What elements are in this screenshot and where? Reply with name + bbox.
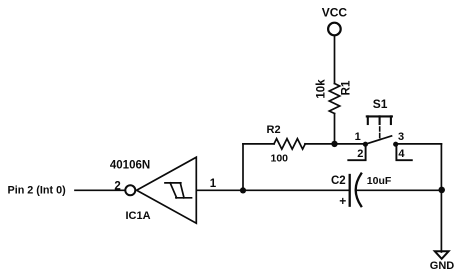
svg-text:2: 2 bbox=[114, 180, 120, 192]
svg-text:3: 3 bbox=[398, 131, 404, 143]
svg-text:R2: R2 bbox=[267, 124, 281, 136]
svg-text:40106N: 40106N bbox=[110, 160, 150, 172]
svg-text:10k: 10k bbox=[316, 79, 328, 99]
svg-text:4: 4 bbox=[398, 148, 405, 160]
svg-text:1: 1 bbox=[210, 178, 217, 190]
svg-text:GND: GND bbox=[430, 260, 455, 272]
svg-text:2: 2 bbox=[357, 148, 363, 160]
svg-text:+: + bbox=[339, 194, 346, 208]
svg-text:S1: S1 bbox=[373, 97, 388, 111]
svg-text:100: 100 bbox=[271, 153, 289, 165]
svg-text:Pin 2 (Int 0): Pin 2 (Int 0) bbox=[8, 184, 67, 196]
svg-text:VCC: VCC bbox=[322, 6, 348, 20]
svg-text:R1: R1 bbox=[341, 80, 353, 95]
svg-text:IC1A: IC1A bbox=[126, 210, 151, 222]
svg-text:C2: C2 bbox=[331, 175, 346, 187]
svg-text:10uF: 10uF bbox=[367, 175, 392, 187]
svg-text:1: 1 bbox=[355, 131, 361, 143]
